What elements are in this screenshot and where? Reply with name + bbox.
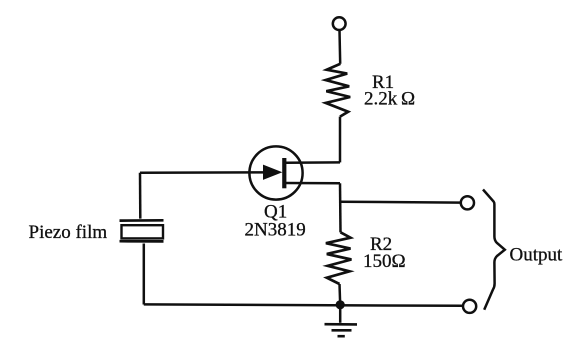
svg-text:Output: Output xyxy=(510,245,564,266)
ground stub xyxy=(339,308,342,323)
svg-text:2.2k Ω: 2.2k Ω xyxy=(364,89,415,110)
piezo top plate xyxy=(120,219,164,222)
wire: R1 bottom down to drain corner xyxy=(339,117,342,163)
svg-text:150Ω: 150Ω xyxy=(363,251,406,272)
wire: piezo bottom down to ground rail xyxy=(143,244,146,305)
piezo bottom plate xyxy=(120,240,164,243)
wire: bottom ground rail xyxy=(144,304,463,305)
wire: R2 bottom to junction xyxy=(338,284,341,305)
wire: drain lead (horizontal into Q1 channel bar) xyxy=(286,161,340,164)
Q1 gate arrowhead xyxy=(264,165,282,179)
output terminal lower (open circle) xyxy=(463,300,476,313)
wire: supply terminal to R1 top xyxy=(338,30,341,64)
transistor Q1 (JFET 2N3819) xyxy=(249,146,340,199)
Q1 body circle xyxy=(249,146,302,199)
ground bar 1 xyxy=(325,323,358,326)
piezo film transducer xyxy=(120,220,164,241)
ground xyxy=(325,308,358,336)
output terminal upper (open circle) xyxy=(461,196,474,209)
wire: source node down to R2 top xyxy=(339,183,342,232)
wire: output tap (source node to upper output terminal) xyxy=(340,200,461,203)
ground bar 3 xyxy=(338,335,345,338)
supply terminal (open circle, top) xyxy=(333,17,346,30)
piezo body (open box) xyxy=(122,225,164,238)
ground bar 2 xyxy=(332,329,352,332)
Q1 source lead xyxy=(286,182,340,185)
resistor R2 (zigzag) xyxy=(326,232,352,284)
resistor R1 (zigzag) xyxy=(326,64,351,117)
svg-text:2N3819: 2N3819 xyxy=(245,220,306,241)
junction dot (node at R2 / ground rail) xyxy=(336,300,345,309)
svg-text:Piezo film: Piezo film xyxy=(29,222,108,243)
Q1 channel bar xyxy=(282,158,286,188)
wire: left vertical down to piezo film xyxy=(139,173,142,219)
wire: gate run (horizontal from left corner to arrow) xyxy=(140,171,265,174)
output brace xyxy=(483,190,505,310)
